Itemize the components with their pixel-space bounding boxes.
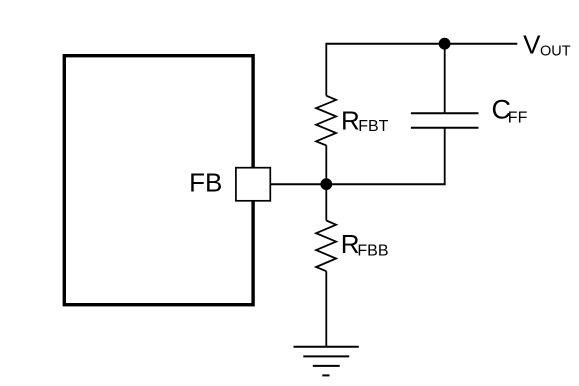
wire: feedback node down to RFBB	[325, 184, 327, 220]
ground	[294, 347, 359, 376]
value label RFBT	[341, 105, 389, 135]
wire: FB pin to CFF bottom (feedback net, horizontal)	[270, 183, 445, 185]
svg-text:FBT: FBT	[358, 118, 388, 135]
value label CFF	[492, 95, 528, 127]
wire: RFBT to feedback node	[325, 145, 327, 184]
wire: VOUT node down to CFF	[444, 44, 446, 114]
node: feedback junction dot	[320, 178, 332, 190]
svg-text:OUT: OUT	[540, 43, 571, 59]
svg-text:V: V	[523, 30, 541, 60]
svg-text:FBB: FBB	[357, 242, 388, 259]
resistor RFBT	[316, 96, 336, 146]
capacitor CFF	[411, 113, 479, 128]
pin FB box	[236, 168, 270, 201]
resistor RFBB	[316, 221, 336, 272]
svg-text:FB: FB	[189, 168, 222, 198]
net label VOUT	[523, 30, 571, 60]
device U1 body	[64, 56, 253, 305]
wire: CFF bottom to feedback net	[444, 128, 446, 185]
svg-text:R: R	[341, 105, 360, 135]
wire: top rail down to RFBT	[325, 43, 327, 96]
node: VOUT junction dot	[439, 38, 451, 50]
svg-text:FF: FF	[508, 110, 528, 127]
wire: RFBB to ground	[325, 271, 327, 347]
wire: top rail to VOUT (horizontal)	[326, 43, 517, 45]
value label RFBB	[341, 229, 389, 259]
